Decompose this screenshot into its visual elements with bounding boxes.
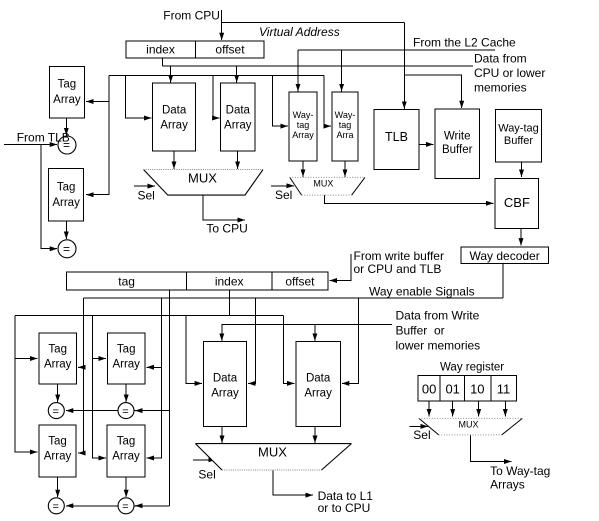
svg-text:Data from Write: Data from Write (396, 309, 480, 323)
wire: index drop from address box (228, 290, 230, 315)
wire: drop to left tag arrays (86, 75, 109, 194)
wire: From TLB to comparator 1 (4, 144, 57, 146)
svg-text:tag: tag (339, 120, 352, 130)
box: left Tag Array 1 (49, 66, 84, 118)
wire: way enable drop column 1 (78, 298, 83, 453)
svg-text:=: = (122, 406, 128, 418)
svg-text:Way-: Way- (335, 110, 356, 120)
box: bottom Tag Array 3 (39, 425, 76, 477)
svg-text:offset: offset (285, 275, 315, 289)
box: Way-tag Array 1 (289, 92, 317, 161)
wire: Data Array 2 to MUX (237, 151, 239, 169)
box: TLB (374, 109, 419, 169)
svg-text:Buffer or: Buffer or (396, 324, 445, 338)
mux M4: way register mux (419, 418, 522, 435)
svg-text:lower memories: lower memories (396, 339, 481, 353)
svg-text:Sel: Sel (275, 188, 292, 202)
svg-text:Array: Array (44, 451, 72, 463)
wire: From CPU tick (221, 10, 223, 22)
svg-text:Buffer: Buffer (504, 135, 533, 147)
wire: comparator bus row 2 (66, 505, 170, 507)
svg-text:Tag: Tag (48, 344, 67, 356)
wire: index to bottom Tag Arrays 1-3 left (15, 316, 37, 453)
svg-text:Array: Array (112, 451, 140, 463)
svg-text:To Way-tag: To Way-tag (490, 464, 550, 478)
box: Way decoder (461, 247, 548, 264)
wire: small MUX output to CBF (325, 195, 494, 203)
wire: bottom Tag Array 1 to comparator (57, 384, 59, 402)
svg-text:Way register: Way register (440, 362, 504, 374)
wire: Way-tag Array 1 to small MUX (302, 161, 304, 177)
wire: arrow into bottom Tag Array 2 left (92, 358, 106, 360)
wire: tag drop from address box (169, 290, 171, 506)
wire: Sel into MUX M1 (134, 185, 155, 187)
svg-text:Tag: Tag (117, 344, 136, 356)
wire: Sel into small MUX M2 (271, 185, 294, 187)
wire: From the L2 Cache line (298, 49, 495, 51)
svg-text:Array: Array (211, 388, 239, 400)
svg-text:Arra: Arra (336, 130, 353, 140)
svg-text:CBF: CBF (504, 195, 530, 210)
svg-text:tag: tag (118, 275, 135, 289)
svg-text:Virtual Address: Virtual Address (259, 25, 340, 39)
box: top Data Array 2 (221, 83, 255, 151)
wire: From CPU horizontal to TLB column (222, 21, 405, 23)
svg-text:Array: Array (304, 388, 332, 400)
svg-text:memories: memories (474, 81, 527, 95)
wire: bottom Data Array 2 to MUX (314, 427, 316, 444)
svg-text:Buffer: Buffer (442, 144, 473, 156)
wire: Way-tag Array 2 to small MUX (344, 161, 346, 177)
wire: Tag Array 2 to comparator 2 (65, 221, 67, 239)
box: Way-tag Array 2 (332, 92, 358, 161)
wire: arrow into left Tag Array 1 right side (86, 101, 109, 103)
wire: arrow into bottom Data Array 2 top (314, 324, 316, 341)
box: bottom Tag Array 4 (107, 425, 145, 477)
box: Write Buffer (435, 109, 480, 179)
svg-text:Array: Array (112, 359, 140, 371)
svg-text:Sel: Sel (413, 428, 430, 442)
wire: to top Data Array 2 left (213, 75, 220, 118)
svg-text:=: = (122, 501, 128, 513)
svg-text:Array: Array (44, 359, 72, 371)
svg-text:Way-tag: Way-tag (498, 122, 539, 134)
wire: arrow into Way-tag Array 1 top (297, 50, 299, 91)
mux M2: way-tag small mux (290, 177, 365, 195)
box: bottom Tag Array 2 (107, 333, 145, 384)
wire: comparator bus row 1 (66, 410, 170, 412)
svg-text:Array: Array (160, 120, 188, 132)
svg-text:From the L2 Cache: From the L2 Cache (413, 36, 516, 50)
wire: branch to Write Buffer (404, 75, 461, 108)
svg-text:MUX: MUX (459, 420, 479, 430)
svg-text:Arrays: Arrays (490, 477, 525, 491)
svg-text:Sel: Sel (198, 468, 215, 482)
wire: index bus H3 (15, 315, 283, 317)
svg-text:MUX: MUX (313, 178, 333, 188)
svg-text:Tag: Tag (117, 436, 136, 448)
wire: way enable bus (83, 297, 503, 299)
svg-text:Data: Data (226, 105, 251, 117)
wire: arrow into bottom Tag Array 1 left (15, 358, 37, 360)
comparator circle 2 (left) (58, 240, 76, 258)
svg-text:Array: Array (224, 120, 252, 132)
wire: index to bottom Data Array 2 left (283, 316, 294, 384)
svg-text:Data from: Data from (474, 52, 527, 66)
svg-text:Data: Data (213, 372, 238, 384)
wire: way enable drop column 2 (147, 298, 162, 458)
svg-text:Write: Write (444, 131, 471, 143)
mux M1: To CPU mux (144, 170, 264, 196)
wire: way enable arrow into bottom Tag Array 1 right (78, 366, 83, 368)
box: Way-tag Buffer (496, 109, 542, 162)
mux M3: bottom data mux (195, 444, 351, 470)
svg-text:Array: Array (52, 197, 80, 209)
svg-text:Way enable Signals: Way enable Signals (369, 285, 475, 299)
svg-text:Array: Array (53, 94, 81, 106)
wire: address bus to data arrays and label (162, 65, 473, 67)
wire: way enable arrow into bottom Tag Array 2 right (147, 366, 162, 368)
svg-text:Data: Data (162, 105, 187, 117)
svg-text:Array: Array (292, 130, 314, 140)
svg-text:10: 10 (470, 381, 484, 396)
svg-text:01: 01 (445, 381, 459, 396)
svg-text:From TLB: From TLB (17, 131, 70, 145)
box: bottom Data Array 2 (296, 342, 340, 427)
svg-text:TLB: TLB (385, 130, 408, 144)
wire: index to bottom Tag Arrays 2-4 left (92, 316, 106, 459)
wire: bottom Tag Array 3 to comparator (57, 477, 59, 497)
box: Way register (418, 376, 517, 401)
box: left Tag Array 2 (49, 169, 84, 221)
comparator circles bottom row 1 (48, 403, 141, 419)
svg-text:Data: Data (306, 372, 331, 384)
svg-text:MUX: MUX (258, 445, 287, 460)
wire: bottom MUX output Data to L1 (273, 470, 313, 495)
wire: bottom Tag Array 2 to comparator (125, 384, 127, 402)
svg-text:From write buffer: From write buffer (354, 249, 444, 263)
svg-text:offset: offset (215, 43, 245, 57)
wire: From CPU down to TLB (403, 22, 405, 108)
comparator circles bottom row 2 (48, 498, 141, 514)
wire: way register cell 00 to MUX (428, 401, 430, 416)
wire: CBF to Way decoder (520, 229, 522, 246)
svg-text:Way decoder: Way decoder (469, 249, 539, 263)
wire: MUX M1 output To CPU (203, 195, 245, 220)
wire: way enable drop to bottom Data Array 1 right (248, 298, 256, 383)
wire: arrow into index/offset box (221, 22, 223, 40)
svg-text:index: index (146, 43, 175, 57)
wire: arrow into Way-tag Array 2 top (341, 50, 343, 91)
svg-text:=: = (53, 501, 59, 513)
wire: from write buffer label into address box (330, 254, 351, 280)
svg-text:Tag: Tag (48, 436, 67, 448)
wire: Way decoder down to way enable bus (502, 264, 504, 299)
wire: bottom Data Array 1 to MUX (221, 427, 223, 444)
wire: bottom Tag Array 4 to comparator (125, 477, 127, 497)
box: index|offset (virtual address) (126, 41, 264, 58)
svg-text:Tag: Tag (58, 79, 77, 91)
svg-text:or CPU and TLB: or CPU and TLB (354, 262, 442, 276)
wire: Way-tag Buffer to CBF (521, 162, 523, 177)
wire: arrow into Data Array 1 top (170, 66, 172, 83)
wire: way register cell 11 to MUX (504, 401, 506, 416)
box: bottom Tag Array 1 (39, 333, 77, 384)
svg-text:Way-: Way- (293, 110, 314, 120)
wire: index to bottom Data Array 1 left (186, 316, 202, 384)
box: bottom Data Array 1 (204, 342, 247, 427)
wire: index bus H_B (109, 74, 324, 76)
wire: index box drop to address bus (161, 58, 163, 66)
svg-text:00: 00 (422, 381, 436, 396)
svg-text:or to CPU: or to CPU (318, 501, 371, 515)
svg-text:=: = (63, 242, 70, 256)
comparator circle 1 (left) (58, 136, 76, 154)
wire: Sel into bottom MUX (193, 459, 216, 461)
box: CBF (495, 178, 539, 228)
svg-text:11: 11 (497, 381, 511, 396)
wire: way enable drop to bottom Data Array 2 right (342, 298, 359, 383)
wire: way register MUX output (470, 435, 511, 462)
svg-text:Sel: Sel (138, 189, 155, 203)
wire: way register cell 10 to MUX (478, 401, 480, 416)
svg-text:CPU or lower: CPU or lower (474, 66, 545, 80)
wire: Data Array 1 to MUX (173, 151, 175, 169)
box: top Data Array 1 (153, 83, 196, 151)
wire: Tag Array 1 to comparator 1 (65, 118, 67, 135)
wire: data from write buffer bus (222, 324, 392, 341)
wire: to top Data Array 1 left (126, 75, 152, 118)
wire: arrow into Data Array 2 top (236, 66, 238, 83)
svg-text:Tag: Tag (57, 182, 76, 194)
svg-text:MUX: MUX (188, 171, 217, 186)
svg-text:From CPU: From CPU (163, 9, 220, 23)
svg-text:=: = (53, 406, 59, 418)
box: tag|index|offset (L2 address) (67, 272, 328, 290)
wire: Sel into way register MUX (410, 425, 428, 427)
wire: to Way-tag Array 2 left (324, 75, 331, 126)
wire: way register cell 01 to MUX (452, 401, 454, 416)
svg-text:To CPU: To CPU (206, 222, 247, 236)
svg-text:index: index (215, 275, 244, 289)
svg-text:tag: tag (297, 120, 310, 130)
wire: to Way-tag Array 1 left (273, 75, 288, 126)
wire: TLB to Write Buffer (419, 143, 433, 145)
wire: From TLB branch to comparator 2 (41, 145, 57, 249)
